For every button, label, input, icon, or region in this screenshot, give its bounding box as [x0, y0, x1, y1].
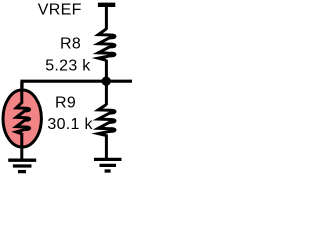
ground right [94, 159, 122, 171]
wire VREF to R8 [105, 5, 108, 30]
svg-text:30.1 k: 30.1 k [47, 116, 93, 133]
ground left [8, 160, 36, 171]
svg-text:R9: R9 [55, 95, 76, 112]
thermistor body (red ellipse) [3, 90, 41, 147]
svg-text:VREF: VREF [38, 2, 82, 19]
thermistor resistive coil [16, 103, 29, 134]
resistor R9 coil [98, 105, 115, 136]
svg-text:5.23 k: 5.23 k [45, 58, 91, 75]
wire horizontal node [22, 81, 132, 88]
VREF terminal bar [98, 3, 115, 7]
wire node to R9 [105, 81, 108, 105]
junction dot [102, 77, 111, 86]
wire thermistor to ground [20, 133, 23, 160]
resistor R8 coil [98, 29, 115, 61]
wire R8 to node [105, 60, 108, 86]
wire into thermistor [20, 82, 23, 104]
wire R9 to ground [105, 135, 108, 160]
svg-text:R8: R8 [60, 36, 81, 53]
